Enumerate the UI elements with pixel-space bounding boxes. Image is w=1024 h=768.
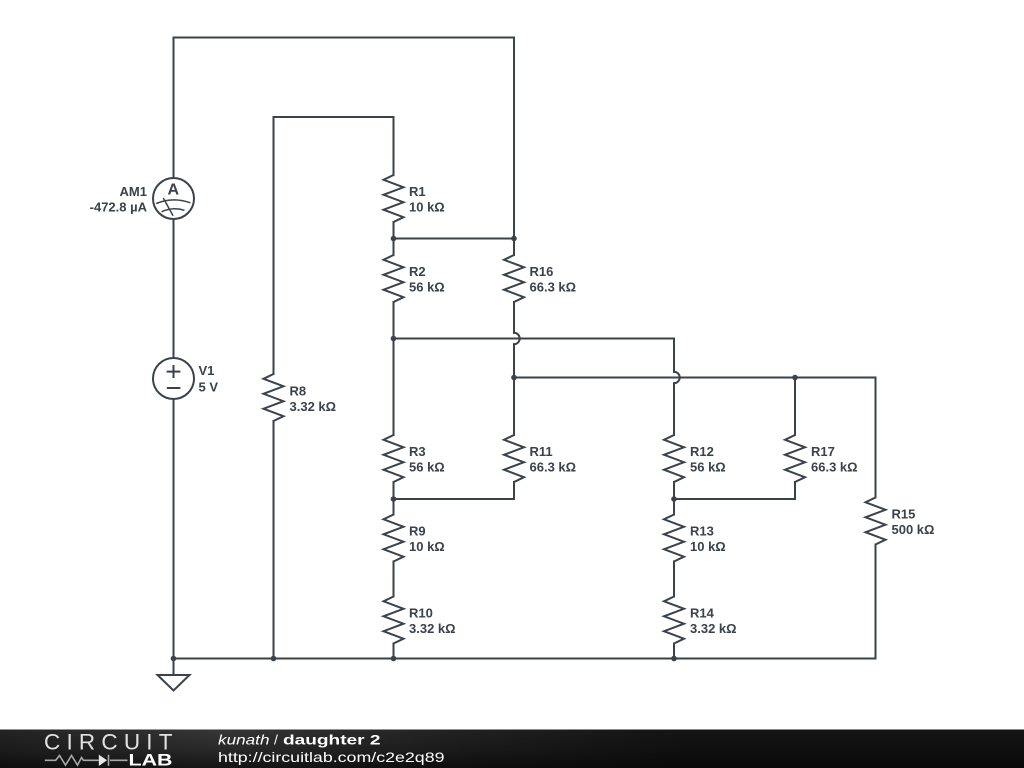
ground	[158, 675, 190, 691]
svg-text:daughter 2: daughter 2	[283, 732, 381, 748]
svg-text:http://circuitlab.com/c2e2q89: http://circuitlab.com/c2e2q89	[218, 749, 445, 765]
wire R2-R3	[393, 302, 395, 435]
wire R8 column upper	[273, 117, 275, 374]
svg-text:R13: R13	[690, 524, 714, 539]
wire R16 down with hop	[513, 302, 515, 333]
wire R1-R2	[393, 222, 395, 255]
node dot R1/R2 junction	[391, 236, 397, 242]
node dot row377 left	[511, 375, 517, 381]
svg-text:R16: R16	[530, 264, 554, 279]
svg-text:kunath: kunath	[218, 732, 270, 748]
svg-text:10 kΩ: 10 kΩ	[690, 539, 726, 554]
wire hop over row 377	[674, 372, 680, 383]
resistor R2	[384, 255, 404, 302]
svg-text:R8: R8	[290, 384, 307, 399]
resistor R9	[384, 515, 404, 562]
logo resistor-diode symbol	[45, 755, 128, 766]
wire R13-R14	[673, 562, 675, 597]
svg-text:56 kΩ: 56 kΩ	[690, 460, 726, 475]
svg-text:3.32 kΩ: 3.32 kΩ	[690, 621, 737, 636]
svg-text:R10: R10	[409, 606, 433, 621]
svg-text:10 kΩ: 10 kΩ	[409, 200, 445, 215]
svg-text:66.3 kΩ: 66.3 kΩ	[530, 280, 577, 295]
svg-text:56 kΩ: 56 kΩ	[409, 460, 445, 475]
wire R12 column top	[673, 339, 675, 372]
resistor R16	[504, 255, 524, 302]
wire node row 499 right	[674, 482, 795, 499]
svg-text:R15: R15	[892, 507, 916, 522]
wire R16 column top	[513, 38, 515, 256]
node dot R16 top junction	[511, 236, 517, 242]
wire R15 bottom	[875, 545, 877, 659]
resistor R3	[384, 435, 404, 482]
wire hop over row 338	[514, 333, 520, 344]
wire node row 338	[394, 338, 675, 340]
wire bottom rail	[174, 658, 876, 660]
svg-text:R2: R2	[409, 264, 426, 279]
resistor R12	[664, 435, 684, 482]
svg-text:V1: V1	[199, 363, 215, 378]
svg-text:3.32 kΩ: 3.32 kΩ	[290, 399, 337, 414]
svg-text:R3: R3	[409, 444, 426, 459]
wire ground stub	[173, 659, 175, 676]
resistor R1	[384, 175, 404, 222]
svg-text:66.3 kΩ: 66.3 kΩ	[530, 460, 577, 475]
resistor R15	[866, 498, 886, 545]
wire R8 column lower	[273, 421, 275, 659]
svg-text:3.32 kΩ: 3.32 kΩ	[409, 621, 456, 636]
wire R9-R10	[393, 562, 395, 597]
wire AM1 to V1	[173, 219, 175, 359]
wire R14 bottom	[673, 644, 675, 659]
svg-text:5 V: 5 V	[199, 379, 219, 394]
resistor R13	[664, 515, 684, 562]
wire R1 column top	[393, 117, 395, 175]
wire top rail	[174, 37, 515, 39]
wire second rail	[274, 116, 394, 118]
node dot row338	[391, 336, 397, 342]
svg-text:A: A	[168, 182, 180, 199]
node dot R10 bottom	[391, 656, 397, 662]
node dot R8 bottom	[271, 656, 277, 662]
wire V1 to ground rail	[173, 399, 175, 659]
resistor R8	[264, 374, 284, 421]
resistor R14	[664, 597, 684, 644]
svg-text:500 kΩ: 500 kΩ	[892, 522, 935, 537]
wire R10 bottom	[393, 644, 395, 659]
wire R3-R9	[393, 482, 395, 515]
svg-text:R12: R12	[690, 444, 714, 459]
svg-text:-472.8 µA: -472.8 µA	[90, 199, 148, 214]
wire R16 to node 377	[513, 344, 515, 435]
ammeter AM1	[153, 178, 194, 219]
wire left column top	[173, 38, 175, 179]
svg-text:56 kΩ: 56 kΩ	[409, 280, 445, 295]
wire R17 top	[794, 378, 796, 436]
resistor R17	[785, 435, 805, 482]
resistor R11	[504, 435, 524, 482]
node dot row499 right	[671, 496, 677, 502]
node dot row499 left	[391, 496, 397, 502]
svg-text:R14: R14	[690, 606, 715, 621]
svg-text:R11: R11	[530, 444, 553, 459]
voltage source V1	[153, 358, 194, 399]
wire node row 238	[394, 238, 515, 240]
node dot ground	[171, 656, 177, 662]
svg-text:R1: R1	[409, 184, 426, 199]
svg-text:/: /	[274, 732, 278, 748]
svg-text:10 kΩ: 10 kΩ	[409, 539, 445, 554]
svg-text:R9: R9	[409, 524, 426, 539]
node dot R14 bottom	[671, 656, 677, 662]
wire node row 377	[514, 377, 876, 379]
svg-text:AM1: AM1	[120, 184, 147, 199]
wire R12 top continue	[673, 383, 675, 435]
node dot row377 right	[792, 375, 798, 381]
svg-text:R17: R17	[811, 444, 835, 459]
svg-text:66.3 kΩ: 66.3 kΩ	[811, 460, 858, 475]
wire R15 top	[875, 378, 877, 498]
wire R12-R13	[673, 482, 675, 515]
resistor R10	[384, 597, 404, 644]
wire node row 499 left	[394, 482, 515, 499]
svg-text:LAB: LAB	[129, 752, 173, 768]
